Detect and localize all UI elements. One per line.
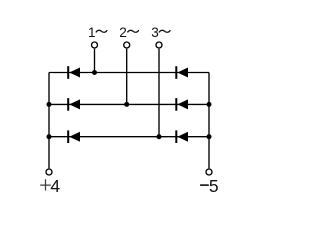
junction right rail row3 bbox=[207, 134, 212, 139]
label -5 bbox=[200, 176, 219, 196]
terminal 1 circle bbox=[92, 42, 98, 48]
svg-text:5: 5 bbox=[209, 176, 219, 196]
diode D6 (row 3 right) bbox=[175, 130, 188, 143]
svg-text:1: 1 bbox=[88, 25, 96, 40]
diode D2 (row 1 right) bbox=[175, 66, 188, 79]
junction phase2/row2 bbox=[124, 102, 129, 107]
diode D1 (row 1 left) bbox=[67, 66, 80, 79]
terminal 2 circle bbox=[124, 42, 130, 48]
svg-text:3: 3 bbox=[151, 25, 159, 40]
terminal label 2~ bbox=[119, 25, 139, 40]
terminal label 1~ bbox=[88, 25, 107, 40]
terminal -5 circle bbox=[206, 169, 212, 175]
label +4 bbox=[40, 176, 60, 196]
wire row 3 bbox=[49, 136, 209, 138]
terminal 3 circle bbox=[156, 42, 162, 48]
junction left rail row3 bbox=[47, 134, 52, 139]
wire row 1 bbox=[49, 72, 209, 74]
diode D5 (row 3 left) bbox=[67, 130, 80, 143]
wire right rail bbox=[208, 73, 210, 169]
junction left rail row2 bbox=[47, 102, 52, 107]
terminal label 3~ bbox=[151, 25, 170, 40]
wire left rail bbox=[48, 73, 50, 169]
wire phase 3 drop bbox=[158, 49, 160, 137]
junction phase3/row3 bbox=[157, 134, 162, 139]
wire row 2 bbox=[49, 103, 209, 105]
terminal +4 circle bbox=[46, 169, 52, 175]
diode D3 (row 2 left) bbox=[67, 98, 80, 111]
svg-text:2: 2 bbox=[119, 25, 127, 40]
svg-text:4: 4 bbox=[50, 176, 60, 196]
wire phase 2 drop bbox=[126, 49, 128, 105]
junction right rail row2 bbox=[207, 102, 212, 107]
wire phase 1 drop bbox=[94, 49, 96, 73]
junction phase1/row1 bbox=[92, 70, 97, 75]
diode D4 (row 2 right) bbox=[175, 98, 188, 111]
